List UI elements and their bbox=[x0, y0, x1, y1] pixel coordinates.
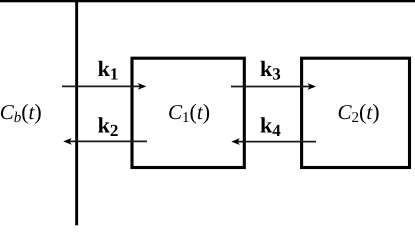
svg-text:Cb(t): Cb(t) bbox=[0, 99, 42, 126]
top border line bbox=[0, 0, 415, 2]
label C1(t) bbox=[168, 99, 210, 126]
label k1 bbox=[98, 56, 119, 83]
label k3 bbox=[260, 56, 281, 83]
label k4 bbox=[260, 113, 281, 140]
label Cb(t) bbox=[0, 99, 42, 126]
blood vessel vertical line bbox=[75, 1, 78, 225]
arrow k3 bbox=[231, 83, 316, 90]
svg-text:k4: k4 bbox=[260, 113, 281, 140]
compartment box C2 bbox=[302, 58, 410, 167]
label k2 bbox=[98, 113, 119, 140]
svg-text:k2: k2 bbox=[98, 113, 119, 140]
arrow k2 bbox=[63, 138, 147, 145]
label C2(t) bbox=[338, 99, 380, 126]
svg-text:k1: k1 bbox=[98, 56, 119, 83]
svg-text:k3: k3 bbox=[260, 56, 281, 83]
svg-text:C1(t): C1(t) bbox=[168, 99, 210, 126]
svg-text:C2(t): C2(t) bbox=[338, 99, 380, 126]
compartment box C1 bbox=[132, 58, 244, 167]
arrow k1 bbox=[62, 83, 146, 90]
arrow k4 bbox=[231, 138, 316, 145]
